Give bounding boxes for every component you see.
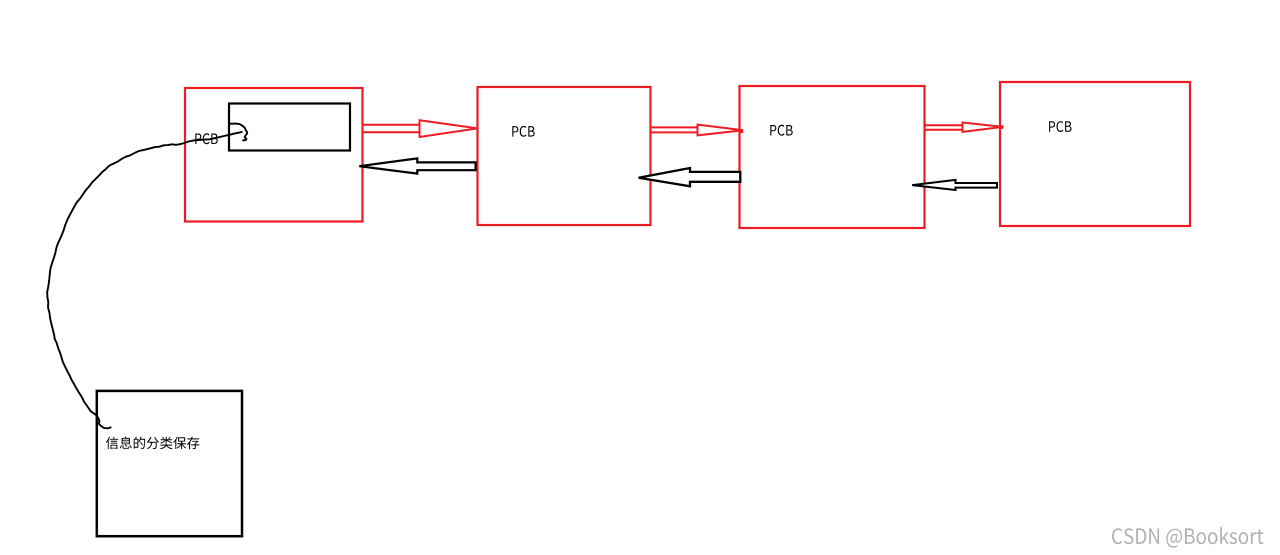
- red arrow 3 head: [963, 123, 1004, 132]
- red arrow 3 shaft (PCB3 to PCB4): [925, 125, 963, 130]
- red arrow 1 head: [420, 120, 478, 137]
- label PCB (box 3): [770, 125, 792, 136]
- box PCB3: [740, 86, 925, 228]
- label PCB (box 2): [512, 126, 534, 137]
- storage box: [97, 391, 242, 536]
- box PCB2: [478, 87, 651, 225]
- label PCB (box 1): [195, 133, 217, 144]
- red arrow 1 shaft (PCB1 to PCB2): [363, 125, 420, 133]
- red arrow 2 tip blob: [739, 129, 744, 133]
- wire squiggle from inner rectangle to storage box: [47, 132, 242, 428]
- black arrow 1 (PCB2 to PCB1): [359, 158, 475, 173]
- box PCB4: [1000, 82, 1190, 226]
- black arrow 2 (PCB3 to PCB2): [639, 168, 741, 186]
- red arrow 2 head: [698, 125, 744, 136]
- red arrow 3 tip blob: [999, 125, 1004, 129]
- black arrow 3 (PCB4 to PCB3): [912, 180, 997, 190]
- watermark CSDN @Booksort: [1112, 527, 1263, 548]
- label 信息的分类保存: [106, 437, 199, 450]
- hook scribble inside inner rectangle: [230, 124, 247, 141]
- inner rectangle in PCB1: [229, 104, 350, 151]
- label PCB (box 4): [1049, 121, 1071, 132]
- red arrow 2 shaft (PCB2 to PCB3): [651, 127, 698, 132]
- box PCB1: [185, 88, 363, 222]
